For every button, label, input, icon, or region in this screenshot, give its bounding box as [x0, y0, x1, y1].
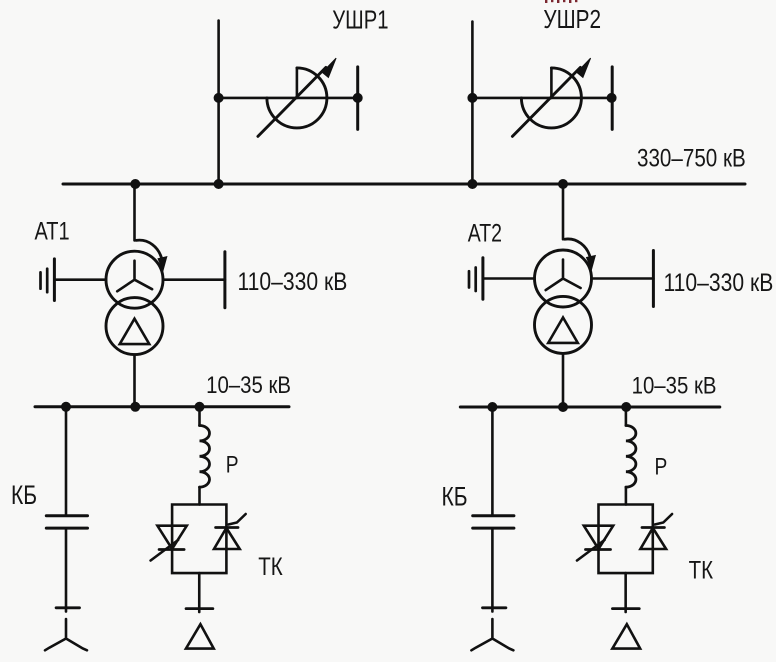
svg-text:КБ: КБ: [442, 482, 468, 512]
svg-text:10–35 кВ: 10–35 кВ: [632, 372, 717, 399]
svg-text:110–330 кВ: 110–330 кВ: [238, 267, 348, 295]
svg-text:ТК: ТК: [258, 552, 283, 580]
svg-text:Р: Р: [226, 450, 239, 478]
svg-text:10–35 кВ: 10–35 кВ: [206, 371, 291, 398]
svg-text:ТК: ТК: [689, 556, 714, 584]
svg-text:КБ: КБ: [11, 481, 37, 511]
svg-text:330–750 кВ: 330–750 кВ: [637, 144, 746, 172]
svg-text:110–330 кВ: 110–330 кВ: [664, 268, 774, 296]
svg-text:АТ1: АТ1: [35, 217, 70, 245]
svg-text:УШР1: УШР1: [332, 5, 388, 34]
svg-text:Р: Р: [655, 452, 668, 480]
svg-text:АТ2: АТ2: [468, 219, 502, 247]
svg-text:УШР2: УШР2: [543, 5, 601, 34]
